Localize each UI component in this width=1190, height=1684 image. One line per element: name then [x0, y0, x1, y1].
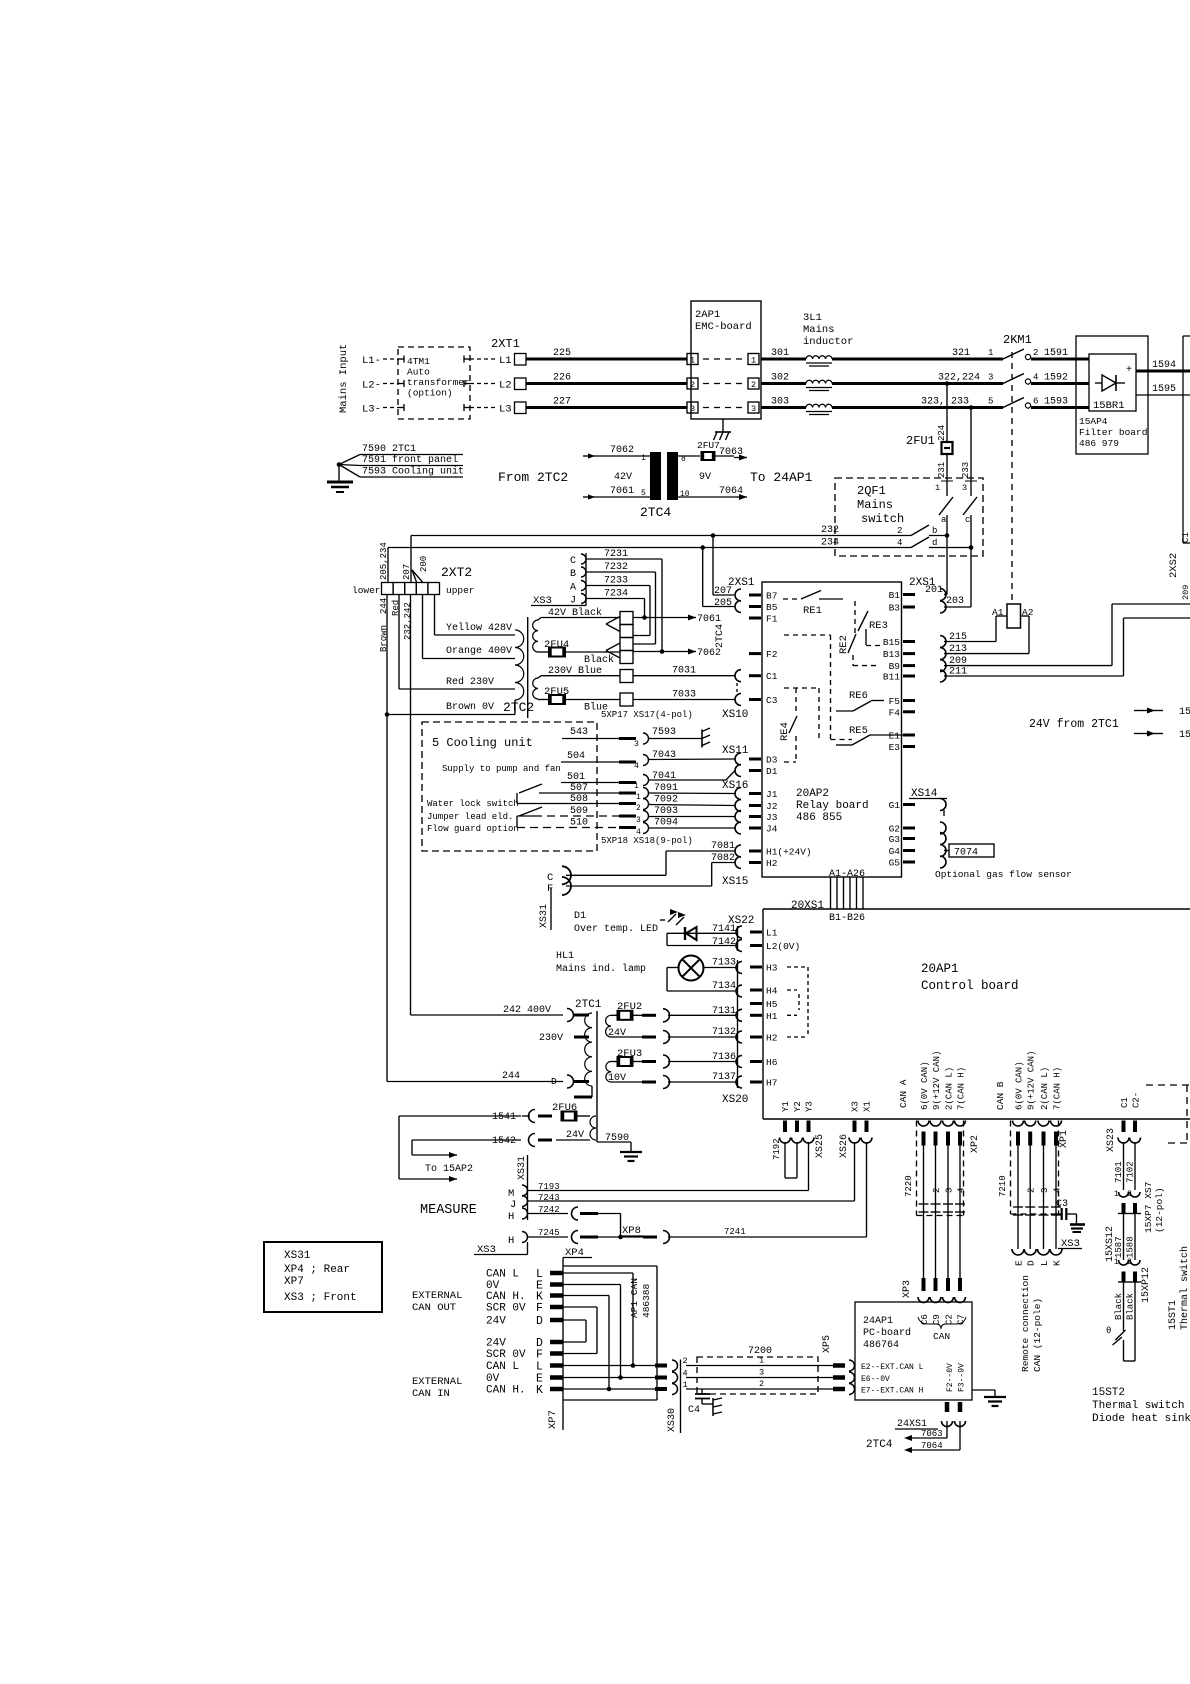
svg-text:224: 224	[937, 425, 947, 441]
svg-text:Mains: Mains	[857, 498, 893, 512]
relay RE4	[779, 688, 819, 762]
ground 2AP1	[714, 419, 732, 440]
svg-text:B7: B7	[766, 591, 777, 602]
svg-text:XS10: XS10	[722, 709, 748, 721]
pin A XS3	[570, 581, 586, 594]
cable AP1 CAN label	[629, 1278, 652, 1318]
svg-text:Over temp. LED: Over temp. LED	[574, 924, 658, 935]
pin 2 2AP1 right	[748, 378, 759, 390]
svg-text:X1: X1	[863, 1101, 873, 1112]
svg-text:Control board: Control board	[921, 979, 1019, 993]
connector XS31 upper label	[539, 888, 551, 930]
svg-text:RE1: RE1	[803, 605, 822, 617]
svg-text:K: K	[536, 1384, 543, 1397]
svg-text:230V: 230V	[539, 1033, 563, 1044]
pin H5 bar	[750, 1002, 762, 1005]
svg-text:7241: 7241	[724, 1227, 746, 1237]
junction XP8	[618, 1235, 623, 1240]
label upper	[446, 585, 475, 596]
ground 24AP1	[972, 1390, 1006, 1406]
connector XS11	[722, 745, 749, 777]
connector XS3 lower bracket	[474, 1242, 528, 1256]
junction d-233	[969, 545, 974, 550]
connector 2XS1 right label	[909, 577, 936, 589]
svg-text:7093: 7093	[654, 806, 678, 817]
wire 7137	[670, 1072, 742, 1088]
pin M XS31	[508, 1185, 528, 1200]
inductor 3L1 coil L1	[806, 356, 832, 366]
svg-text:CAN IN: CAN IN	[412, 1388, 450, 1400]
wire 207 tag	[402, 564, 412, 580]
svg-text:2XT2: 2XT2	[441, 565, 472, 580]
svg-text:E6--0V: E6--0V	[861, 1375, 890, 1384]
svg-text:7041: 7041	[652, 771, 676, 782]
svg-text:E: E	[1014, 1260, 1025, 1266]
transformer 2TC4 core right	[667, 452, 678, 500]
svg-text:EXTERNAL: EXTERNAL	[412, 1376, 462, 1388]
pins CAN B	[1013, 1051, 1063, 1146]
svg-text:486 979: 486 979	[1079, 438, 1119, 449]
switch 2QF1 label	[857, 484, 904, 526]
pin 3 2AP1 right	[748, 402, 759, 414]
wire 510	[517, 818, 735, 838]
svg-text:L2: L2	[499, 380, 512, 392]
connector XS3 strip	[620, 612, 633, 664]
pins 20AP2 left	[749, 591, 812, 870]
pin G1 arc	[940, 799, 946, 817]
svg-text:486 855: 486 855	[796, 812, 842, 824]
wire 321	[832, 348, 1003, 359]
svg-text:6: 6	[1033, 397, 1038, 407]
diode 15BR1 symbol	[1095, 375, 1125, 391]
svg-text:B13: B13	[883, 649, 900, 660]
junction b-231	[945, 533, 950, 538]
pin G2 arc	[940, 822, 946, 834]
connector 15XP12	[1118, 1267, 1152, 1303]
svg-text:upper: upper	[446, 585, 475, 596]
svg-text:L1: L1	[766, 928, 778, 939]
wire 7241	[668, 1142, 867, 1237]
label lower	[352, 585, 381, 596]
svg-text:H5: H5	[766, 999, 778, 1010]
legend box	[264, 1242, 382, 1312]
svg-text:3: 3	[1040, 1188, 1050, 1193]
svg-text:1592: 1592	[1044, 373, 1068, 384]
wire 7082	[711, 853, 735, 886]
label Water lock switch	[427, 799, 519, 809]
rectifier 15BR1 box	[1089, 354, 1136, 411]
svg-text:2: 2	[932, 1188, 942, 1193]
relay RE3	[855, 601, 888, 646]
wire 7200-3	[686, 1368, 833, 1378]
pin C XS3	[570, 554, 586, 567]
svg-text:A2: A2	[1022, 607, 1034, 618]
terminal 2XT1-L1	[499, 354, 526, 368]
wire 7063 out	[719, 447, 747, 461]
board 20AP2 box	[762, 582, 902, 877]
svg-text:Flow guard option: Flow guard option	[427, 824, 519, 834]
board 2AP1 EMC-board box	[691, 301, 761, 419]
junction 207 drop	[711, 533, 716, 538]
pin J XS31	[510, 1196, 528, 1212]
contact 2QF1-c	[963, 497, 977, 548]
svg-text:A1-A26: A1-A26	[829, 869, 865, 880]
wire 242 400V	[411, 1005, 564, 1016]
wire 215	[944, 616, 1007, 643]
tap 230V 2TC1	[539, 1033, 589, 1044]
svg-text:D1: D1	[574, 911, 586, 922]
transformer 2TC1 sec 10V	[606, 1062, 611, 1083]
svg-text:2AP1: 2AP1	[695, 309, 720, 321]
svg-text:XP4 ; Rear: XP4 ; Rear	[284, 1264, 350, 1276]
svg-text:2: 2	[897, 526, 902, 536]
svg-text:B: B	[570, 569, 576, 580]
pin J XS3	[570, 594, 586, 607]
connector XP5	[822, 1335, 855, 1395]
pins 24AP1 bottom names	[946, 1363, 967, 1392]
svg-text:4: 4	[1033, 373, 1038, 383]
svg-text:L3: L3	[499, 404, 512, 416]
wire 7133	[667, 958, 736, 969]
svg-text:7074: 7074	[954, 848, 978, 859]
pin L1 arc	[736, 926, 742, 938]
wire 7063 to 2TC4	[904, 1421, 947, 1441]
pin 205 B5	[714, 598, 741, 613]
pin 10 2TC4	[680, 490, 690, 499]
svg-text:Mains Input: Mains Input	[338, 344, 350, 413]
svg-text:Water lock switch: Water lock switch	[427, 799, 519, 809]
svg-text:E1: E1	[889, 731, 901, 742]
svg-text:7590 2TC1: 7590 2TC1	[362, 444, 416, 455]
cable 7210 label	[998, 1175, 1008, 1197]
label 15ST1	[1168, 1246, 1190, 1330]
dashes near C2	[1146, 1085, 1190, 1143]
svg-text:7031: 7031	[672, 666, 696, 677]
wire 543	[562, 727, 702, 749]
wire CAN H out	[563, 1380, 688, 1390]
terminal L2 (mains)	[362, 380, 381, 392]
wire 201	[925, 536, 947, 597]
svg-text:θ: θ	[1106, 1326, 1111, 1336]
junction 7234-7061	[642, 615, 647, 620]
wire Brown 244 tag	[379, 598, 389, 652]
wire L2 into 4TM1	[383, 380, 404, 387]
label 24V from 2TC1	[1029, 718, 1119, 731]
wire 504	[561, 750, 735, 771]
wire red down	[398, 595, 400, 690]
wire 200	[412, 556, 429, 582]
svg-text:C2-: C2-	[1132, 1092, 1142, 1108]
svg-text:(12-pol): (12-pol)	[1154, 1187, 1165, 1233]
svg-text:H1: H1	[766, 1011, 778, 1022]
svg-text:321: 321	[952, 348, 970, 359]
wire 226	[526, 373, 687, 384]
svg-text:transformer: transformer	[407, 377, 470, 388]
pin 8 2TC4	[681, 455, 686, 464]
label From 2TC2	[498, 470, 568, 485]
svg-text:SCR 0V: SCR 0V	[486, 1349, 526, 1361]
wire 7192	[772, 1138, 797, 1178]
connector XS23	[1106, 1128, 1141, 1152]
net label Mains Input	[338, 344, 350, 413]
connector 24XS1 label	[895, 1419, 938, 1430]
wire 2FU4 Black	[565, 652, 620, 666]
pins XS3 remote EDLK	[1012, 1249, 1063, 1266]
label Flow guard option	[427, 824, 519, 834]
svg-text:244: 244	[502, 1071, 520, 1082]
connector XS3 remote label	[1058, 1238, 1082, 1250]
label 42V	[614, 472, 632, 483]
pin 201 B1	[940, 589, 946, 601]
pins 24AP1 top names	[920, 1314, 967, 1325]
svg-text:To 15AP2: To 15AP2	[425, 1164, 473, 1175]
junction 233 on wire 323	[969, 405, 974, 410]
transformer 2TC1 core	[596, 1011, 598, 1142]
svg-text:233: 233	[961, 462, 971, 478]
label optional gas flow sensor	[935, 869, 1072, 880]
inductor 3L1 coil L3	[806, 404, 832, 414]
wire 10V tap	[608, 1073, 670, 1089]
connector XS22 label	[728, 915, 754, 927]
wire 7242	[528, 1205, 621, 1237]
svg-text:SCR 0V: SCR 0V	[486, 1303, 526, 1315]
svg-text:9V: 9V	[699, 472, 711, 483]
linkage 2KM1 dashed	[1011, 352, 1013, 604]
terminal L1 (mains)	[362, 355, 381, 367]
wire 203	[944, 548, 971, 608]
svg-text:200: 200	[419, 556, 429, 572]
transformer 4TM1 label	[407, 356, 470, 399]
pins 24AP1 bottom	[942, 1402, 966, 1427]
svg-text:5XP17 XS17(4-pol): 5XP17 XS17(4-pol)	[601, 710, 693, 720]
board 15AP4 label	[1079, 416, 1147, 449]
fuse 2FU5	[538, 686, 569, 704]
contact 2KM1-56	[988, 397, 1038, 409]
cable AP1 CAN box	[563, 1266, 657, 1400]
svg-text:24V: 24V	[486, 1316, 506, 1328]
svg-text:Y3: Y3	[805, 1101, 815, 1112]
wire 7200-1	[686, 1356, 833, 1366]
label CAN A	[898, 1079, 909, 1108]
relay RE6	[836, 690, 884, 711]
svg-text:XP7: XP7	[284, 1276, 304, 1288]
svg-text:2: 2	[683, 1356, 688, 1366]
wire L3 out of 4TM1	[464, 404, 495, 411]
svg-text:J: J	[570, 596, 576, 607]
svg-text:B5: B5	[766, 602, 778, 613]
svg-text:C2: C2	[945, 1314, 955, 1325]
wire 7232	[586, 562, 656, 644]
switch jumper	[517, 807, 542, 828]
wire 7134	[667, 968, 736, 993]
transformer 2TC2 core	[527, 617, 529, 718]
wire 7064 to 2TC4	[904, 1421, 960, 1453]
wire 7033	[633, 690, 735, 701]
connector XS15	[722, 845, 748, 888]
wire 207 drop to B7	[713, 536, 734, 596]
wire 213	[944, 616, 1029, 655]
connector 2XT1 label	[491, 337, 520, 351]
svg-text:1542: 1542	[492, 1136, 516, 1147]
svg-text:4: 4	[897, 538, 902, 548]
pin 244 2TC1	[567, 1075, 589, 1088]
svg-text:2TC4: 2TC4	[715, 624, 726, 648]
svg-text:2: 2	[690, 380, 695, 390]
svg-text:3: 3	[690, 404, 695, 414]
board 20AP1 box	[763, 909, 1190, 1119]
svg-text:X3: X3	[851, 1101, 861, 1112]
svg-text:Y2: Y2	[793, 1101, 803, 1112]
pins C1 C2 20AP1	[1120, 1092, 1142, 1132]
connector XS31 lower	[517, 1155, 528, 1220]
label 15XP7 XS7	[1143, 1182, 1165, 1233]
wire L3 into 4TM1	[383, 404, 404, 411]
wire 225	[526, 348, 687, 359]
board 20AP2 label	[796, 788, 869, 824]
svg-text:501: 501	[567, 772, 585, 783]
svg-text:Filter board: Filter board	[1079, 427, 1147, 438]
wire 1591	[1031, 348, 1089, 359]
pin B13 arc	[940, 648, 946, 660]
label To 15AP2	[425, 1164, 473, 1175]
board 24AP1 box	[855, 1302, 972, 1400]
junction 224 on wire 322	[945, 381, 950, 386]
wire 322,224	[832, 373, 1003, 384]
contact 2KM1-12	[988, 348, 1038, 360]
cable 7220 label	[904, 1175, 914, 1197]
svg-text:C4: C4	[688, 1405, 700, 1416]
connector XS26	[839, 1134, 850, 1158]
connector XS25	[815, 1134, 826, 1158]
svg-text:0V: 0V	[486, 1373, 500, 1385]
switch water lock	[517, 784, 542, 804]
wire 302	[761, 373, 806, 384]
pin 2 2AP1 left	[687, 378, 698, 390]
label Jumper lead eld	[427, 812, 513, 822]
svg-text:switch: switch	[861, 512, 904, 526]
svg-text:7092: 7092	[654, 795, 678, 806]
svg-text:To 24AP1: To 24AP1	[750, 470, 813, 485]
svg-text:15XP7 XS7: 15XP7 XS7	[1143, 1182, 1154, 1233]
svg-text:XP3: XP3	[902, 1280, 913, 1298]
svg-text:Yellow 428V: Yellow 428V	[446, 622, 512, 634]
wire Red tag	[391, 600, 401, 616]
svg-text:1593: 1593	[1044, 397, 1068, 408]
svg-text:205: 205	[714, 598, 732, 609]
svg-text:1595: 1595	[1152, 384, 1176, 395]
wire 7591 front panel	[339, 454, 463, 466]
led D1 label	[574, 911, 658, 935]
svg-text:B1: B1	[889, 590, 901, 601]
svg-text:XP2: XP2	[970, 1135, 981, 1153]
cable 7210 shield box	[1011, 1121, 1059, 1215]
svg-text:3: 3	[634, 740, 639, 749]
connector 20XS1 wires	[831, 877, 864, 909]
svg-text:XS25: XS25	[815, 1134, 826, 1158]
wire 1592	[1031, 373, 1089, 384]
svg-text:A: A	[570, 583, 576, 594]
wire 242 down	[410, 595, 412, 1016]
loop K	[563, 1296, 611, 1392]
svg-text:2FU3: 2FU3	[617, 1048, 642, 1060]
pin H3 arc	[736, 962, 742, 974]
pin 3 2AP1 left	[687, 402, 698, 414]
pin G3 arc	[940, 833, 946, 845]
wire L1 out of 4TM1	[464, 356, 495, 363]
wire 1594	[1136, 360, 1190, 371]
svg-text:15BR1: 15BR1	[1093, 400, 1125, 412]
svg-text:(option): (option)	[407, 388, 453, 399]
svg-text:Mains: Mains	[803, 324, 835, 336]
wire 2AP1 internal 3	[703, 407, 744, 409]
linkage dashed H3-H2	[787, 967, 808, 1037]
wire 7136	[670, 1052, 742, 1068]
relay linkage dashed mid	[784, 635, 852, 740]
wire 7593 cooling unit	[339, 465, 464, 478]
svg-text:3: 3	[962, 483, 967, 493]
svg-text:Relay board: Relay board	[796, 800, 869, 812]
wire Red 230V	[399, 676, 515, 689]
wire 501	[561, 771, 735, 792]
svg-text:Black: Black	[1114, 1293, 1124, 1320]
svg-text:D3: D3	[766, 755, 778, 766]
fuse 2FU2	[611, 1001, 670, 1022]
wires CAN B down	[1013, 1146, 1063, 1250]
svg-text:1: 1	[636, 793, 641, 802]
svg-text:1594: 1594	[1152, 360, 1176, 371]
relay RE1	[783, 591, 843, 618]
svg-text:B15: B15	[883, 637, 900, 648]
svg-text:1: 1	[988, 348, 993, 358]
svg-text:CAN B: CAN B	[995, 1081, 1006, 1110]
svg-text:Jumper lead eld.: Jumper lead eld.	[427, 812, 513, 822]
svg-text:G1: G1	[889, 800, 901, 811]
wire 7590 2TC1	[339, 444, 463, 465]
wire 7074	[944, 844, 994, 859]
svg-text:XP1: XP1	[1059, 1130, 1070, 1148]
svg-text:K: K	[1052, 1260, 1063, 1266]
pin B11 arc	[940, 670, 946, 682]
svg-text:1: 1	[759, 1356, 764, 1366]
thermal switch 15ST1	[1106, 1326, 1135, 1361]
svg-text:B11: B11	[883, 672, 900, 683]
svg-text:1: 1	[751, 356, 756, 366]
wire 7102	[1126, 1142, 1136, 1190]
ground 7593	[702, 728, 710, 748]
wire 509	[517, 806, 735, 825]
svg-text:H: H	[508, 1211, 514, 1223]
terminal 2XT1-L3	[499, 402, 526, 416]
svg-text:Mains ind. lamp: Mains ind. lamp	[556, 963, 646, 975]
svg-text:G4: G4	[889, 846, 901, 857]
svg-text:7(CAN H): 7(CAN H)	[1053, 1067, 1063, 1110]
wire 209 tag	[1181, 585, 1190, 600]
svg-text:EMC-board: EMC-board	[695, 321, 752, 333]
wire 231	[935, 454, 953, 496]
label remote connection	[1020, 1275, 1043, 1372]
svg-text:Red 230V: Red 230V	[446, 676, 494, 688]
svg-text:3: 3	[636, 816, 641, 825]
svg-text:1588: 1588	[1126, 1236, 1136, 1258]
transformer 2TC4 label	[640, 505, 671, 520]
connector XS7 arcs	[1114, 1190, 1140, 1199]
svg-text:J1: J1	[766, 789, 778, 800]
svg-text:2FU7: 2FU7	[697, 440, 720, 451]
pins XP4 bottom	[486, 1337, 563, 1397]
terminal Blue	[620, 693, 633, 706]
pin B XS3	[570, 567, 586, 580]
contact 2KM1-34	[988, 373, 1038, 385]
